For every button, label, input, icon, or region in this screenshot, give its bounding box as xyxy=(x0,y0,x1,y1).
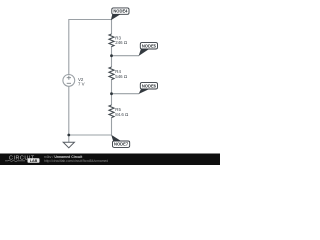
wire right rail segment R3 to R4 xyxy=(111,46,113,67)
wire stub to NODE6 xyxy=(112,93,140,95)
node NODE5 xyxy=(139,43,158,56)
svg-text:LAB: LAB xyxy=(30,159,38,163)
wire left rail upper xyxy=(68,19,70,75)
node NODE6 xyxy=(139,83,158,94)
svg-text:7 V: 7 V xyxy=(78,81,85,86)
node NODE7 xyxy=(111,135,130,148)
resistor R3 xyxy=(109,34,128,47)
wire top horizontal xyxy=(69,19,112,21)
footer CircuitLab logo xyxy=(5,156,40,163)
ground xyxy=(63,135,74,148)
svg-text:546 Ω: 546 Ω xyxy=(115,74,128,79)
svg-text:246 Ω: 246 Ω xyxy=(115,40,128,45)
wire right rail segment below R5 xyxy=(111,118,113,136)
voltage source V2 xyxy=(63,75,85,87)
svg-text:NODE6: NODE6 xyxy=(142,83,157,88)
svg-text:http://circuitlab.com/circuit/: http://circuitlab.com/circuit/9cxd84/unn… xyxy=(44,159,108,163)
wire right rail segment R4 to R5 xyxy=(111,80,113,106)
junction node B (rail / NODE6 stub) xyxy=(110,92,113,95)
svg-text:NODE4: NODE4 xyxy=(113,9,128,14)
footer bar xyxy=(0,154,220,166)
junction node C (ground / bottom wire) xyxy=(67,134,70,137)
wire left rail lower xyxy=(68,86,70,135)
svg-text:NODE5: NODE5 xyxy=(142,43,157,48)
resistor R4 xyxy=(109,67,128,80)
wire bottom horizontal xyxy=(69,134,112,136)
svg-text:NODE7: NODE7 xyxy=(114,142,129,147)
junction node A (rail / NODE5 stub) xyxy=(110,54,113,57)
resistor R5 xyxy=(109,105,129,118)
svg-text:84.6 Ω: 84.6 Ω xyxy=(115,112,129,117)
wire right rail segment above R3 xyxy=(111,19,113,34)
wire stub to NODE5 xyxy=(112,55,140,57)
node NODE4 xyxy=(111,8,129,20)
